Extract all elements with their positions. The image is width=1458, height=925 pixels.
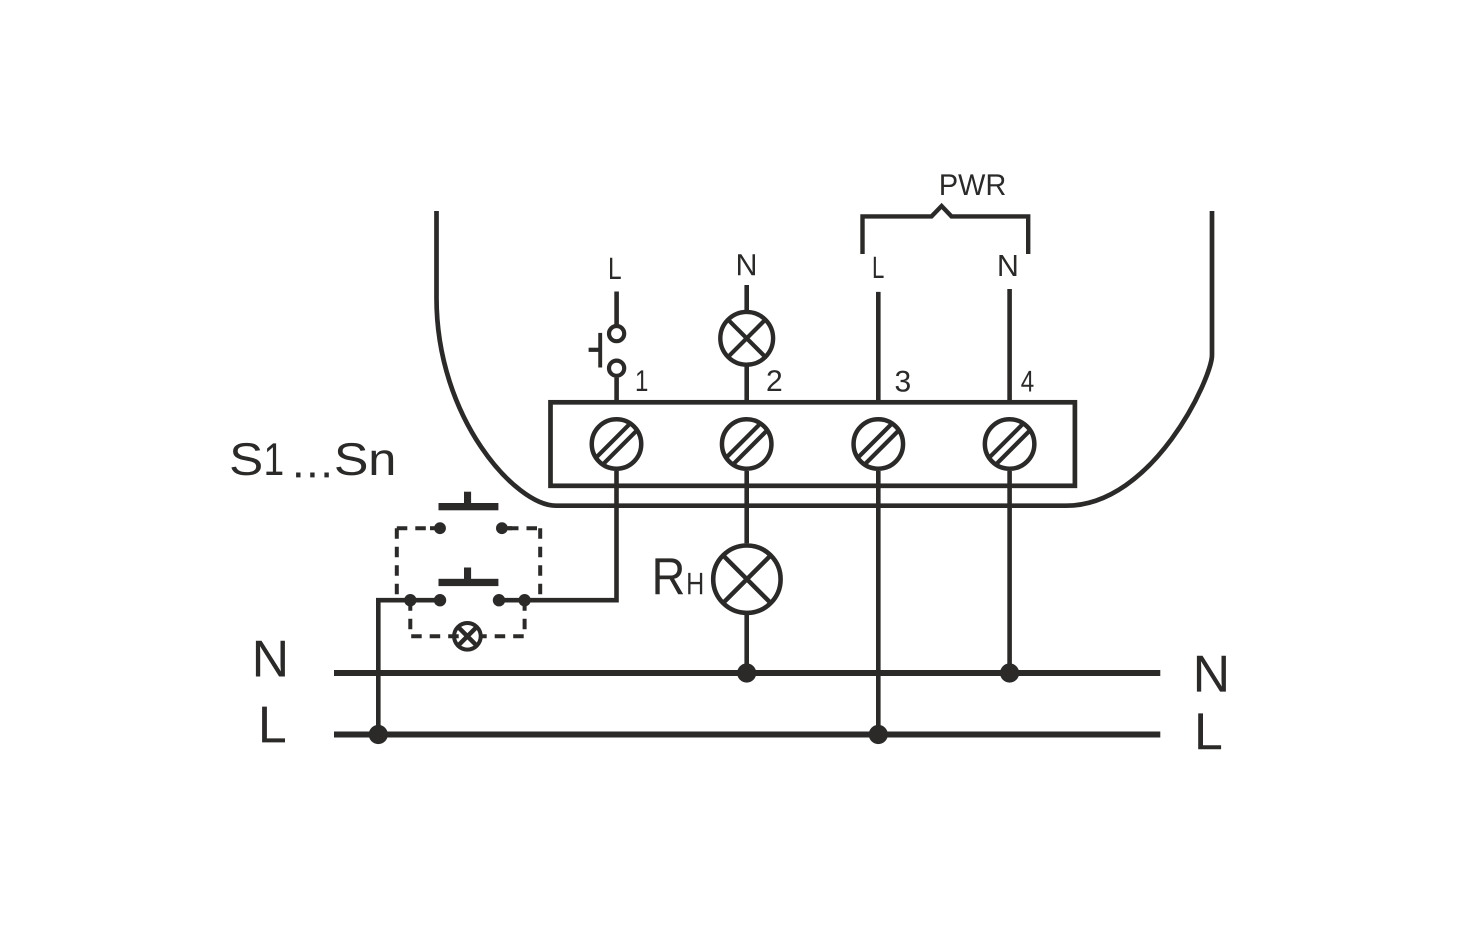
terminal screw 4	[980, 415, 1039, 474]
label N above terminal 4	[999, 255, 1016, 276]
terminal block box	[551, 402, 1075, 486]
device enclosure outline	[437, 211, 1213, 506]
switch row wire left	[378, 600, 440, 734]
L bus line	[334, 732, 1160, 738]
switch actuator	[598, 333, 602, 368]
push-button 1 actuator	[439, 503, 499, 510]
label N above terminal 2	[738, 254, 755, 275]
pin number 4	[1021, 371, 1033, 392]
PWR bracket	[863, 206, 1029, 254]
L label left	[262, 707, 285, 743]
switch contact circle upper	[609, 326, 624, 341]
wire from N to lamp	[744, 285, 749, 310]
N bus line	[334, 670, 1160, 676]
PWR label	[941, 174, 1005, 195]
junction dot switch branch on L bus	[369, 725, 388, 744]
switch contact circle lower	[609, 361, 624, 376]
wire from switch to terminal 1	[614, 378, 619, 403]
dashed box verticals	[395, 528, 399, 600]
wire from N to terminal 4	[1007, 289, 1012, 402]
N label right	[1197, 656, 1226, 692]
push-button 1 dashed leads	[397, 526, 434, 530]
pin number 1	[637, 370, 647, 391]
dashed lamp branch	[410, 600, 461, 636]
junction dot terminal 3 on L bus	[869, 725, 888, 744]
pin number 2	[768, 370, 782, 391]
terminal screw 3	[849, 415, 908, 474]
lamp RH	[713, 546, 780, 613]
S1...Sn label	[231, 443, 393, 478]
pin number 3	[896, 371, 910, 392]
indicator lamp in switch	[454, 623, 481, 650]
wire from lamp to terminal 2	[744, 366, 749, 402]
terminal screw 1	[587, 415, 646, 474]
wire RH lamp to N bus	[744, 615, 749, 673]
wire from L to switch	[614, 292, 619, 325]
junction dot RH on N bus	[737, 663, 756, 682]
label L above terminal 1	[610, 258, 621, 279]
L label right	[1198, 713, 1221, 749]
switch row wire right	[499, 471, 617, 600]
wire from L to terminal 3	[876, 292, 881, 402]
push-button 1 contact dots	[434, 522, 446, 534]
lamp above terminal 2	[720, 312, 773, 365]
terminal screw 2	[717, 415, 776, 474]
wire terminal 3 to L bus	[876, 471, 881, 735]
push-button 2 actuator	[439, 579, 499, 586]
RH label	[655, 558, 683, 594]
label L above terminal 3	[874, 257, 884, 278]
contact dots row 2	[404, 594, 416, 606]
wire terminal 4 to N bus	[1007, 471, 1012, 673]
N label left	[256, 641, 285, 677]
junction dot terminal 4 on N bus	[1000, 663, 1019, 682]
wire terminal 2 to RH lamp	[744, 471, 749, 543]
